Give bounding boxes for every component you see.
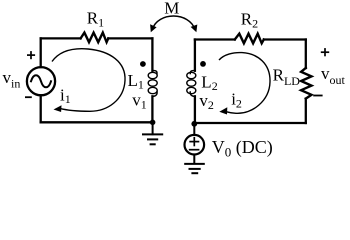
wire left-loop top right segment [108,37,152,39]
junction node left (L1 / ground) [150,120,156,126]
svg-text:RLD: RLD [273,66,301,89]
svg-text:i1: i1 [60,85,71,106]
source v_in (AC) [27,67,55,95]
inductor L2 coil [187,70,196,96]
junction node right (L2 / V0) [191,121,197,127]
wire right-loop top right segment [264,38,306,40]
svg-text:v1: v1 [132,91,147,112]
V0 polarity marks [189,137,200,150]
svg-text:vin: vin [3,68,21,91]
wire right-loop top left segment [195,38,235,40]
mutual coupling arc M [150,16,197,32]
resistor R1 [81,33,109,43]
ground left bars [142,134,163,144]
ground left stem [152,122,154,134]
wire V0 stem [193,124,195,135]
resistor R2 [235,34,264,44]
coupling dot L2 [200,61,206,67]
svg-text:i2: i2 [231,90,242,111]
coupling dot L1 [140,61,146,67]
ground right stem [193,155,195,164]
inductor L2 wire lower stub [194,96,196,124]
resistor R_LD [301,68,311,99]
polarity + (v_in) [27,51,35,59]
polarity - (v_out) [313,95,322,97]
inductor L1 wire lower stub [151,96,153,122]
svg-text:R2: R2 [241,10,258,31]
inductor L1 coil [148,70,157,96]
svg-text:vout: vout [321,64,346,87]
polarity + (v_out) [321,48,329,56]
wire left vertical (source branch bottom) [40,95,42,122]
polarity - (v_in) [25,96,32,98]
svg-text:R1: R1 [87,9,104,30]
svg-text:V0 (DC): V0 (DC) [212,137,273,160]
source V0 (DC) [185,135,205,155]
current arrow i1 [52,49,125,112]
wire left-loop top [41,37,81,39]
wire left vertical (source branch top) [40,38,42,67]
wire right-loop bottom [194,122,305,124]
wire right vertical bottom [305,99,307,123]
svg-text:M: M [164,0,179,18]
inductor L2 wire upper stub [194,40,196,71]
svg-text:v2: v2 [199,91,214,112]
wire right vertical top (to R_LD) [305,40,307,69]
svg-text:L1: L1 [128,71,144,92]
current arrow i2 [219,53,270,115]
inductor L1 wire upper stub [151,38,153,70]
wire left-loop bottom [41,121,153,123]
ground right bars [184,164,205,173]
